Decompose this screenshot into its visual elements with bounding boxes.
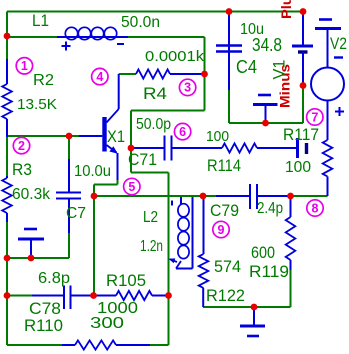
svg-text:60.3k: 60.3k — [12, 186, 51, 203]
svg-text:R110: R110 — [24, 316, 63, 335]
svg-text:2: 2 — [18, 139, 25, 153]
svg-text:R2: R2 — [33, 72, 54, 89]
svg-text:10.0u: 10.0u — [74, 163, 111, 180]
svg-text:V1: V1 — [269, 60, 288, 80]
svg-text:C7: C7 — [66, 205, 86, 222]
svg-text:R3: R3 — [12, 160, 32, 179]
svg-text:5: 5 — [128, 180, 135, 194]
svg-text:1.2n: 1.2n — [140, 238, 163, 255]
svg-text:0.0001k: 0.0001k — [145, 48, 205, 65]
svg-text:C79: C79 — [210, 201, 239, 220]
svg-text:C4: C4 — [236, 57, 257, 77]
svg-text:300: 300 — [90, 315, 124, 332]
svg-text:R105: R105 — [106, 271, 146, 290]
svg-text:Plus: Plus — [278, 0, 294, 19]
svg-text:R122: R122 — [206, 286, 245, 305]
svg-text:R117: R117 — [283, 125, 319, 144]
svg-text:100: 100 — [285, 159, 311, 176]
svg-text:6: 6 — [179, 125, 186, 139]
svg-text:L1: L1 — [32, 11, 49, 30]
svg-text:R119: R119 — [249, 262, 289, 281]
svg-text:13.5K: 13.5K — [17, 96, 57, 113]
svg-text:X1: X1 — [107, 127, 125, 146]
svg-text:6.8p: 6.8p — [38, 270, 70, 287]
svg-text:50.0n: 50.0n — [121, 14, 160, 31]
svg-text:100: 100 — [206, 128, 229, 145]
svg-text:600: 600 — [251, 243, 275, 262]
svg-text:50.0p: 50.0p — [136, 116, 171, 133]
svg-text:9: 9 — [218, 223, 225, 237]
svg-text:7: 7 — [311, 110, 318, 124]
svg-text:34.8: 34.8 — [252, 35, 282, 55]
svg-text:2.4p: 2.4p — [257, 200, 283, 217]
svg-text:1: 1 — [21, 59, 28, 73]
svg-text:8: 8 — [312, 201, 319, 215]
svg-text:3: 3 — [184, 81, 191, 95]
svg-text:R4: R4 — [143, 84, 167, 103]
svg-text:4: 4 — [96, 70, 103, 84]
svg-text:V2: V2 — [330, 34, 347, 53]
svg-text:R114: R114 — [207, 156, 241, 175]
svg-text:574: 574 — [214, 257, 241, 276]
svg-text:C71: C71 — [128, 150, 157, 169]
svg-text:L2: L2 — [143, 209, 158, 226]
